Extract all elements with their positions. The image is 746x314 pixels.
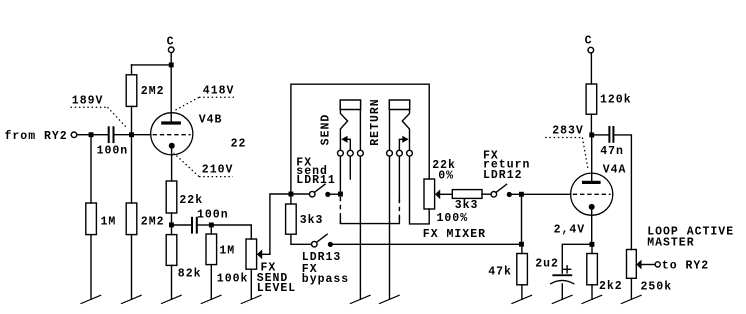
svg-text:418V: 418V (203, 84, 235, 97)
node LDR11 left junction (289, 192, 294, 197)
ground under RETURN sleeve (380, 295, 400, 303)
ground under 100k (241, 295, 261, 303)
svg-text:LDR12: LDR12 (483, 169, 523, 182)
ground under 82k (162, 295, 182, 303)
node junction D (209, 223, 214, 228)
jack SEND tip spring (340, 110, 347, 151)
svg-text:RETURN: RETURN (369, 98, 382, 145)
wire junction C to C2 (174, 224, 191, 226)
svg-text:C: C (585, 35, 593, 48)
svg-text:LEVEL: LEVEL (257, 282, 297, 295)
wire SEND sleeve to ground (359, 156, 361, 299)
svg-text:189V: 189V (72, 95, 104, 108)
node V4B grid junction B (129, 132, 134, 137)
ground under 2u2 (552, 295, 572, 303)
svg-text:3k3: 3k3 (455, 199, 479, 212)
svg-text:3k3: 3k3 (300, 214, 324, 227)
op-amp V4B triode (151, 113, 223, 155)
svg-text:SEND: SEND (320, 114, 333, 146)
svg-text:22k: 22k (179, 194, 203, 207)
wire wiper to LDR11 junction (270, 194, 289, 254)
capacitor 100n interstage (191, 209, 229, 234)
switch LDR12 FX return (482, 150, 530, 198)
label 418V (175, 84, 235, 110)
resistor 1M return leak (206, 227, 235, 299)
ground under 47k (512, 295, 532, 303)
svg-text:22: 22 (231, 137, 247, 150)
wire C2 to junction D (198, 224, 209, 226)
svg-text:V4A: V4A (603, 163, 627, 176)
wire junction to V4A grid (524, 193, 571, 195)
resistor 1M grid leak (86, 137, 117, 299)
capacitor 100n input (97, 126, 129, 157)
wire 47n to master pot (614, 135, 631, 250)
potentiometer 22k FX MIXER (423, 159, 486, 241)
jack SEND terminals (338, 150, 364, 156)
jack RETURN switch arrow (399, 136, 408, 151)
wire V4A cathode (591, 210, 593, 242)
resistor 22k cathode (166, 181, 203, 213)
resistor 82k (166, 227, 201, 299)
svg-text:from RY2: from RY2 (5, 130, 68, 143)
wire C1 to junction B (115, 134, 130, 136)
node cathode junction C (169, 223, 174, 228)
wire upper 2M2 to supply junction (132, 64, 169, 66)
switch LDR13 FX bypass (291, 234, 349, 286)
svg-text:MASTER: MASTER (647, 237, 694, 250)
ground under 1M (81, 295, 101, 303)
wire C terminal to V4B plate (170, 53, 172, 122)
node cathode junction (590, 242, 595, 247)
svg-text:to RY2: to RY2 (662, 260, 709, 273)
wire mixer bus (333, 243, 519, 245)
svg-text:100n: 100n (97, 144, 129, 157)
node C supply terminal right (585, 35, 594, 53)
svg-text:LDR11: LDR11 (296, 174, 336, 187)
wire FX mixer enclosure loop (291, 84, 429, 191)
wire SEND ring stub (349, 156, 351, 179)
resistor 120k (586, 53, 632, 133)
resistor 2k2 (587, 247, 623, 299)
svg-text:C: C (167, 35, 175, 48)
jack RETURN body (369, 98, 410, 145)
svg-text:1M: 1M (219, 245, 235, 258)
label 283V (545, 125, 588, 169)
svg-text:2k2: 2k2 (599, 280, 623, 293)
wire V4B cathode (171, 149, 173, 181)
wire junction D to pot (214, 225, 252, 239)
jack SEND switch arrow (341, 136, 350, 151)
jack RETURN sleeve lead (389, 110, 391, 151)
svg-text:100%: 100% (437, 212, 469, 225)
svg-text:100k: 100k (217, 273, 249, 286)
svg-text:82k: 82k (178, 268, 202, 281)
potentiometer 100k FX SEND LEVEL (217, 239, 296, 299)
jack SEND body (320, 100, 361, 145)
svg-text:2u2: 2u2 (535, 257, 559, 270)
svg-text:283V: 283V (552, 125, 584, 138)
op-amp V4A triode (571, 163, 627, 215)
wire RETURN tip to pot (410, 156, 430, 224)
wire SEND tip to junction (339, 156, 341, 191)
wire input to junction (77, 134, 89, 136)
jack SEND sleeve lead (359, 110, 361, 151)
wire 22k to junction C (171, 213, 173, 223)
svg-text:V4B: V4B (199, 114, 223, 127)
wire junction down to mixer bus (521, 197, 523, 242)
resistor 2M2 upper divider (126, 65, 164, 132)
svg-text:47n: 47n (600, 145, 624, 158)
wire junction A to C1 (94, 134, 108, 136)
resistor 2M2 lower divider (126, 137, 164, 299)
svg-text:0%: 0% (438, 169, 454, 182)
svg-text:47k: 47k (488, 266, 512, 279)
svg-text:2M2: 2M2 (141, 216, 165, 229)
svg-text:120k: 120k (600, 94, 632, 107)
wire RETURN ring lead (398, 156, 400, 201)
svg-text:2,4V: 2,4V (554, 223, 586, 236)
node from RY2 input terminal (5, 130, 77, 143)
node C supply junction (169, 63, 174, 68)
node V4A grid junction (519, 192, 524, 197)
svg-text:2M2: 2M2 (141, 85, 165, 98)
jack RETURN tip spring (402, 110, 409, 151)
resistor 47k (488, 247, 527, 300)
label 189V (71, 95, 128, 129)
svg-text:FX MIXER: FX MIXER (423, 228, 486, 241)
wire bypass dashed right (398, 199, 400, 219)
wire cathode to bypass cap (562, 244, 589, 273)
capacitor 47n (594, 126, 624, 158)
ground under 2k2 (582, 295, 602, 303)
node SEND tip junction (338, 192, 343, 197)
jack RETURN terminals (387, 150, 413, 156)
svg-text:210V: 210V (202, 163, 234, 176)
svg-text:1M: 1M (101, 216, 117, 229)
node to RY2 terminal (655, 260, 709, 273)
node mixer bus junction (519, 242, 524, 247)
svg-text:100n: 100n (197, 209, 229, 222)
ground under SEND sleeve (350, 295, 370, 303)
node V4A plate junction (589, 133, 594, 138)
potentiometer 250k MASTER (627, 225, 735, 299)
wire bypass dashed left (339, 197, 341, 224)
svg-text:250k: 250k (641, 281, 673, 294)
wire plate junction to V4A (591, 137, 593, 180)
node grid-side junction A (89, 132, 94, 137)
ground under 250k (621, 295, 641, 303)
switch LDR11 FX send (293, 156, 338, 197)
svg-text:bypass: bypass (302, 273, 349, 286)
wire RETURN sleeve to ground (389, 156, 391, 299)
wire bypass bottom (340, 218, 399, 224)
node C supply terminal left (167, 35, 175, 52)
resistor 3k3 send (286, 197, 324, 235)
capacitor 2u2 electrolytic (535, 257, 573, 299)
ground under lower 2M2 (122, 295, 142, 303)
resistor 3k3 return (452, 190, 482, 212)
wire junction B to V4B grid (134, 134, 151, 136)
ground under right 1M (201, 295, 221, 303)
label 210V (174, 153, 234, 177)
